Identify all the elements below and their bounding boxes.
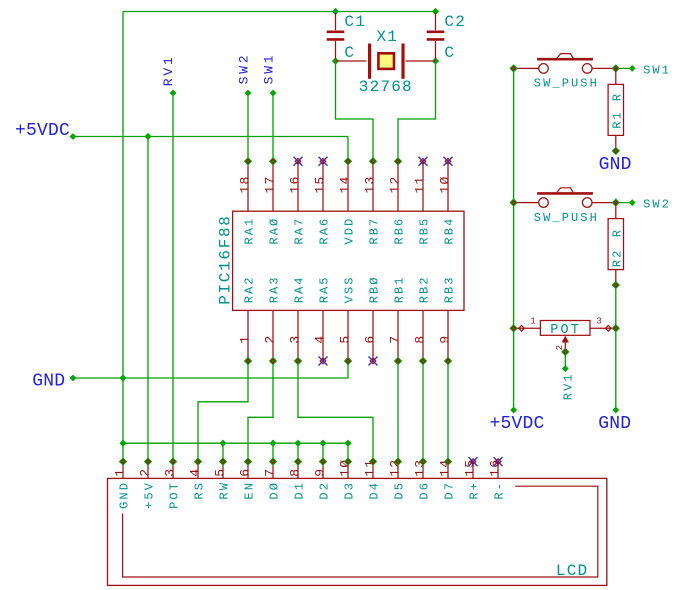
- pin 5 VSS bottom: [347, 310, 349, 361]
- svg-text:6: 6: [237, 468, 252, 477]
- LCD module body: [108, 478, 607, 585]
- svg-text:C2: C2: [444, 13, 466, 31]
- svg-text:R2: R2: [611, 249, 625, 268]
- wire pin8 RB2 to LCD D6: [422, 361, 424, 462]
- wire GND bus above LCD: [123, 443, 348, 461]
- resistor R1: [615, 68, 617, 84]
- wire POT wiper RV1: [564, 352, 566, 369]
- svg-text:VDD: VDD: [343, 217, 357, 245]
- svg-text:C: C: [344, 44, 355, 62]
- svg-text:RV1: RV1: [561, 372, 575, 400]
- junction SW1 left: [509, 64, 517, 72]
- svg-text:RB6: RB6: [393, 217, 407, 245]
- wire RV1 vertical to LCD pin3: [172, 93, 174, 462]
- svg-text:R1: R1: [611, 110, 625, 129]
- resistor R2: [615, 203, 617, 219]
- svg-text:RA3: RA3: [268, 275, 282, 303]
- pin 2 LCD +5V: [147, 462, 149, 479]
- wire pin2 RA3 to LCD EN: [248, 361, 273, 462]
- pin 15 LCD R+: [472, 462, 474, 479]
- pin 7 LCD D0: [272, 462, 274, 479]
- svg-text:D3: D3: [343, 481, 357, 500]
- junction SW2 right: [612, 198, 620, 206]
- node SW1 top end: [270, 90, 277, 97]
- junction bus D1: [294, 440, 301, 447]
- pin 14 LCD D7: [447, 462, 449, 479]
- node GND left end: [70, 375, 77, 382]
- switch SW_PUSH 2: [515, 202, 538, 204]
- svg-text:+5V: +5V: [143, 481, 157, 509]
- svg-text:C1: C1: [344, 13, 366, 31]
- svg-text:SW2: SW2: [643, 197, 671, 211]
- junction POT pin3: [612, 324, 620, 332]
- svg-text:D7: D7: [443, 481, 457, 500]
- svg-text:RS: RS: [193, 481, 207, 500]
- svg-text:4: 4: [312, 335, 327, 344]
- pin 16 LCD R-: [497, 462, 499, 479]
- junction bus D2: [319, 440, 326, 447]
- svg-text:2: 2: [137, 468, 152, 477]
- node R2 bottom: [612, 281, 620, 289]
- pin 15 RA6 top: [322, 161, 324, 211]
- junction X1 right node: [432, 57, 439, 64]
- svg-text:GND: GND: [599, 155, 632, 175]
- svg-text:VSS: VSS: [343, 275, 357, 303]
- LCD inner outline: [123, 486, 598, 577]
- pin 13 LCD D6: [422, 462, 424, 479]
- pin 3 LCD POT: [172, 462, 174, 479]
- svg-text:14: 14: [337, 175, 352, 193]
- wire pin1 RA2 to LCD RS: [198, 361, 248, 462]
- svg-text:LCD: LCD: [556, 562, 588, 580]
- svg-text:RA7: RA7: [293, 217, 307, 245]
- svg-text:RAØ: RAØ: [268, 217, 282, 245]
- wire pin3 RA4 to LCD D4: [298, 361, 373, 462]
- junction +5VDC branch: [144, 133, 151, 140]
- wire bus drop LCD pin5 RW: [222, 443, 224, 461]
- svg-text:PIC16F88: PIC16F88: [217, 214, 235, 304]
- svg-text:D4: D4: [368, 481, 382, 500]
- junction SW2 left: [509, 198, 517, 206]
- svg-text:EN: EN: [243, 481, 257, 500]
- svg-text:D5: D5: [393, 481, 407, 500]
- svg-text:POT: POT: [550, 323, 581, 338]
- svg-text:18: 18: [237, 175, 252, 193]
- svg-text:RB3: RB3: [443, 275, 457, 303]
- svg-text:8: 8: [412, 335, 427, 344]
- pin 10 LCD D3: [347, 462, 349, 479]
- switch SW_PUSH 1: [515, 67, 538, 69]
- svg-text:RB5: RB5: [418, 217, 432, 245]
- junction bus D3: [344, 440, 351, 447]
- pin 11 RB5 top: [422, 161, 424, 211]
- wire bus drop LCD pin8 D1: [297, 443, 299, 461]
- svg-text:4: 4: [187, 468, 202, 477]
- pin 1 RA2 bottom: [247, 310, 249, 361]
- node SW2 right end: [629, 199, 636, 206]
- op-amp U1 PIC16F88 chip body: [233, 211, 464, 310]
- svg-text:1: 1: [530, 317, 536, 327]
- svg-text:5: 5: [212, 468, 227, 477]
- svg-text:13: 13: [362, 175, 377, 193]
- svg-text:16: 16: [287, 175, 302, 193]
- svg-text:1Ø: 1Ø: [437, 175, 452, 193]
- wire SW2 to pin18: [247, 93, 249, 161]
- pin 14 VDD top: [347, 161, 349, 211]
- junction C2 top: [432, 8, 439, 15]
- svg-text:R: R: [611, 228, 625, 237]
- svg-text:9: 9: [437, 335, 452, 344]
- svg-text:RA2: RA2: [243, 275, 257, 303]
- wire SW2 stub: [616, 202, 632, 204]
- pin 18 RA1 top: [247, 161, 249, 211]
- svg-text:6: 6: [362, 335, 377, 344]
- svg-text:RV1: RV1: [161, 54, 176, 86]
- junction bus D0: [269, 440, 276, 447]
- svg-text:SW1: SW1: [262, 53, 277, 85]
- pin 6 LCD EN: [247, 462, 249, 479]
- node RV1 top end: [170, 90, 177, 97]
- pin 4 LCD RS: [197, 462, 199, 479]
- svg-text:GND: GND: [598, 414, 631, 434]
- svg-text:GND: GND: [118, 481, 132, 509]
- capacitor C1: [335, 13, 337, 30]
- svg-text:7: 7: [262, 468, 277, 477]
- svg-text:RB1: RB1: [393, 275, 407, 303]
- pin 2 RA3 bottom: [272, 310, 274, 361]
- svg-text:RB4: RB4: [443, 217, 457, 245]
- node R1 bottom: [612, 147, 620, 155]
- wire +5VDC horizontal: [73, 136, 348, 138]
- svg-text:15: 15: [312, 175, 327, 193]
- pin 3 RA4 bottom: [297, 310, 299, 361]
- svg-text:1: 1: [112, 468, 127, 477]
- svg-text:SW1: SW1: [643, 64, 671, 78]
- pin 12 RB6 top: [397, 161, 399, 211]
- pin 4 RA5 bottom: [322, 310, 324, 361]
- pin 6 RB0 bottom: [372, 310, 374, 361]
- junction SW1 right: [612, 64, 620, 72]
- svg-text:D6: D6: [418, 481, 432, 500]
- potentiometer POT RV1: [540, 321, 590, 336]
- svg-text:32768: 32768: [359, 78, 413, 96]
- junction X1 left node: [332, 57, 339, 64]
- svg-text:RB2: RB2: [418, 275, 432, 303]
- pin 13 RB7 top: [372, 161, 374, 211]
- node +5VDC bottom right end: [510, 407, 517, 414]
- wire bus drop LCD pin7 D0: [272, 443, 274, 461]
- capacitor C2: [435, 13, 437, 30]
- wire XTAL left to pin13: [336, 61, 374, 161]
- svg-text:RA5: RA5: [318, 275, 332, 303]
- svg-text:12: 12: [387, 175, 402, 193]
- junction GND left: [119, 374, 126, 381]
- junction POT pin1: [509, 324, 517, 332]
- node SW1 right end: [629, 65, 636, 72]
- crystal X1 32768: [336, 60, 367, 62]
- svg-text:SW2: SW2: [237, 53, 252, 85]
- wire GND horizontal to VSS pin5: [73, 361, 348, 378]
- svg-text:+5VDC: +5VDC: [490, 414, 545, 434]
- svg-text:1: 1: [237, 335, 252, 344]
- svg-text:RA6: RA6: [318, 217, 332, 245]
- svg-text:D1: D1: [293, 481, 307, 500]
- svg-text:R+: R+: [468, 481, 482, 500]
- pin 8 RB2 bottom: [422, 310, 424, 361]
- node GND bottom right end: [612, 407, 619, 414]
- pin 16 RA7 top: [297, 161, 299, 211]
- node SW2 top end: [245, 90, 252, 97]
- svg-text:17: 17: [262, 175, 277, 193]
- wire pin7 RB1 to LCD D5: [397, 361, 399, 462]
- svg-text:POT: POT: [168, 481, 182, 509]
- svg-text:3: 3: [596, 317, 602, 327]
- svg-text:5: 5: [337, 335, 352, 344]
- wire GND top horizontal: [123, 11, 436, 13]
- svg-text:9: 9: [312, 468, 327, 477]
- svg-text:D2: D2: [318, 481, 332, 500]
- svg-text:SW_PUSH: SW_PUSH: [534, 211, 599, 225]
- node RV1 right end: [562, 365, 569, 372]
- wire VDD pin14: [347, 137, 349, 162]
- pin 9 LCD D2: [322, 462, 324, 479]
- wire SW1 to pin17: [272, 93, 274, 161]
- svg-text:7: 7: [387, 335, 402, 344]
- svg-text:GND: GND: [32, 372, 65, 392]
- pin 1 LCD GND: [122, 462, 124, 479]
- wire +5VDC right vertical: [513, 68, 515, 410]
- junction bus RW: [219, 440, 226, 447]
- wire R2 to POT pin3 to GND: [615, 285, 617, 410]
- node +5VDC left end: [70, 133, 77, 140]
- svg-text:3: 3: [287, 335, 302, 344]
- wire pin9 RB3 to LCD D7: [447, 361, 449, 462]
- svg-text:R: R: [611, 92, 625, 101]
- svg-text:RA1: RA1: [243, 217, 257, 245]
- svg-text:11: 11: [412, 175, 427, 193]
- svg-text:RA4: RA4: [293, 275, 307, 303]
- pin 12 LCD D5: [397, 462, 399, 479]
- svg-text:RB7: RB7: [368, 217, 382, 245]
- pin 10 RB4 top: [447, 161, 449, 211]
- svg-text:DØ: DØ: [268, 481, 282, 500]
- pin 17 RA0 top: [272, 161, 274, 211]
- junction bus left: [119, 440, 126, 447]
- svg-text:RBØ: RBØ: [368, 275, 382, 303]
- junction C1 top: [332, 8, 339, 15]
- svg-text:R-: R-: [493, 481, 507, 500]
- svg-text:X1: X1: [377, 28, 399, 46]
- svg-text:C: C: [444, 44, 455, 62]
- wire GND left vertical: [122, 12, 124, 462]
- svg-text:2: 2: [555, 344, 565, 350]
- pin 7 RB1 bottom: [397, 310, 399, 361]
- svg-text:8: 8: [287, 468, 302, 477]
- svg-text:2: 2: [262, 335, 277, 344]
- wire +5VDC branch to LCD pin2: [147, 137, 149, 462]
- wire bus drop LCD pin9 D2: [322, 443, 324, 461]
- svg-text:+5VDC: +5VDC: [15, 121, 70, 141]
- svg-text:3: 3: [162, 468, 177, 477]
- wire XTAL right to pin12: [398, 61, 436, 161]
- svg-text:RW: RW: [218, 481, 232, 500]
- pin 8 LCD D1: [297, 462, 299, 479]
- pin 11 LCD D4: [372, 462, 374, 479]
- pin 5 LCD RW: [222, 462, 224, 479]
- pin 9 RB3 bottom: [447, 310, 449, 361]
- wire SW1 stub: [616, 67, 632, 69]
- svg-text:SW_PUSH: SW_PUSH: [534, 77, 599, 91]
